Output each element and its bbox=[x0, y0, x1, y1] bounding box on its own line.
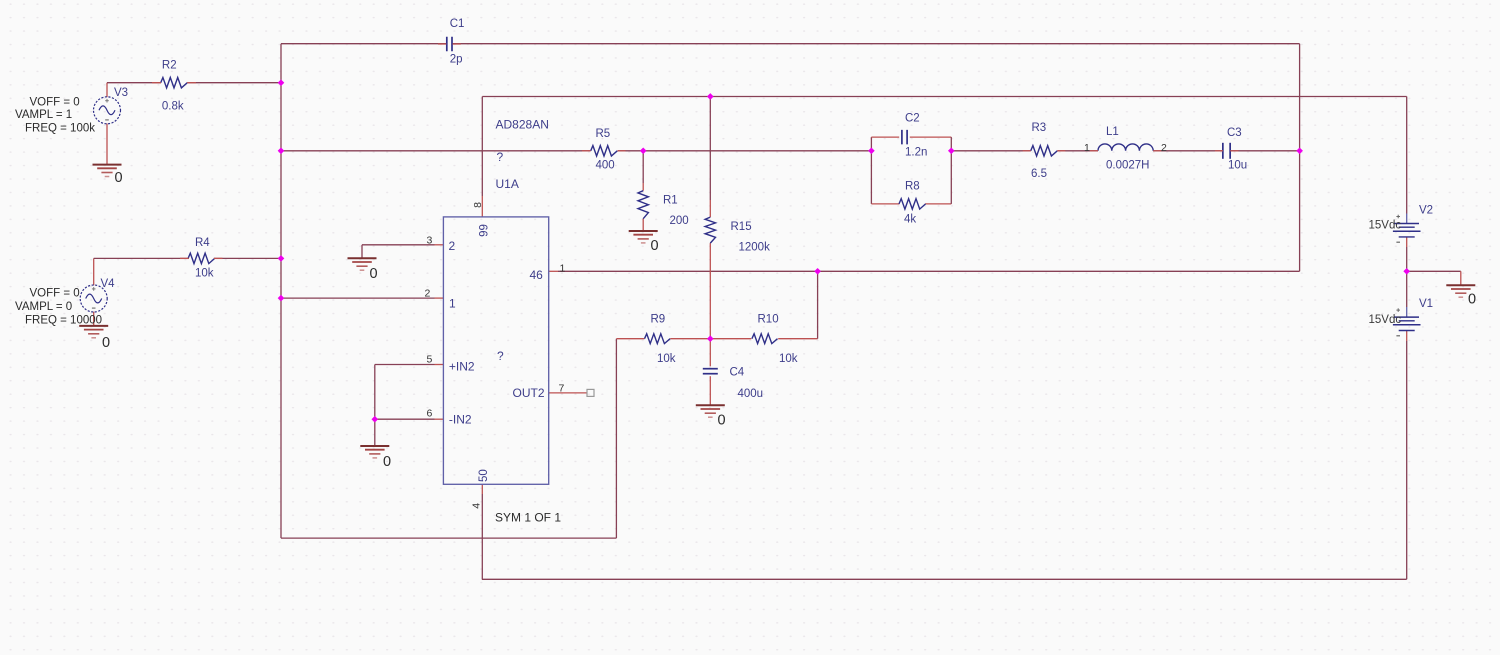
svg-text:10k: 10k bbox=[779, 353, 798, 365]
wire mid rail segment E bbox=[1153, 150, 1223, 152]
svg-text:0: 0 bbox=[651, 238, 659, 254]
ground V4 bbox=[79, 326, 110, 351]
wire mid rail segment B bbox=[618, 150, 872, 152]
svg-text:FREQ = 10000: FREQ = 10000 bbox=[25, 315, 102, 327]
wire V3 to ground bbox=[106, 124, 108, 165]
svg-text:FREQ = 100k: FREQ = 100k bbox=[25, 123, 95, 135]
svg-text:V1: V1 bbox=[1419, 298, 1433, 310]
wire R9 right to node bbox=[670, 338, 710, 340]
op-amp U1A box bbox=[443, 118, 548, 485]
svg-text:R10: R10 bbox=[758, 314, 779, 326]
svg-text:1200k: 1200k bbox=[739, 241, 771, 253]
svg-text:1: 1 bbox=[449, 297, 456, 311]
junction trunk-pin2 bbox=[278, 295, 285, 302]
lead C1 right bbox=[453, 43, 461, 45]
lead C1 left bbox=[438, 43, 446, 45]
ground R1 bbox=[629, 231, 659, 254]
svg-text:?: ? bbox=[497, 349, 504, 363]
wire +V rail bbox=[482, 96, 1406, 98]
svg-text:0.8k: 0.8k bbox=[162, 101, 184, 113]
junction trunk-R4 bbox=[278, 255, 285, 262]
label SYM 1 OF 1 bbox=[495, 511, 561, 525]
wire node to R10 bbox=[710, 338, 751, 340]
junction C2 left bbox=[868, 147, 875, 154]
svg-text:2p: 2p bbox=[450, 54, 463, 66]
svg-text:46: 46 bbox=[530, 268, 544, 282]
wire left trunk vertical bbox=[280, 44, 282, 538]
junction pins5-6 bbox=[371, 416, 378, 423]
svg-text:V3: V3 bbox=[114, 87, 128, 99]
dc source V1 bbox=[1369, 298, 1434, 336]
svg-text:0: 0 bbox=[718, 413, 726, 429]
resistor R4 bbox=[188, 237, 215, 280]
lead R2 left bbox=[152, 82, 161, 84]
resistor R8 branch bbox=[871, 151, 951, 226]
svg-text:0: 0 bbox=[115, 170, 123, 186]
junction C2 right bbox=[948, 147, 955, 154]
svg-text:3: 3 bbox=[427, 235, 433, 247]
svg-text:0: 0 bbox=[383, 454, 391, 470]
wire V1 to bottom rail bbox=[1406, 331, 1408, 580]
lead C3 right bbox=[1230, 150, 1238, 152]
svg-text:1: 1 bbox=[560, 263, 566, 275]
svg-text:0: 0 bbox=[370, 266, 378, 282]
lead R5 right bbox=[618, 150, 626, 152]
wire trunk to pin2 bbox=[281, 297, 443, 299]
svg-text:V4: V4 bbox=[101, 278, 116, 290]
junction trunk-rail bbox=[278, 147, 285, 154]
ground pins5-6 bbox=[360, 446, 391, 470]
resistor R3 bbox=[1031, 122, 1058, 180]
wire R2 to trunk bbox=[187, 82, 281, 84]
svg-text:400u: 400u bbox=[738, 388, 764, 400]
lead R4 right bbox=[214, 257, 223, 259]
svg-text:R9: R9 bbox=[651, 314, 666, 326]
wire OUT2 stub bbox=[549, 392, 587, 394]
dc source V2 bbox=[1369, 205, 1434, 243]
ground supply bbox=[1446, 285, 1476, 307]
capacitor C1 bbox=[447, 18, 465, 66]
resistor R2 bbox=[161, 60, 188, 113]
resistor R5 bbox=[591, 128, 618, 172]
wire V4 to ground bbox=[93, 312, 95, 326]
svg-text:V2: V2 bbox=[1419, 205, 1433, 217]
lead C3 left bbox=[1215, 150, 1223, 152]
svg-text:R2: R2 bbox=[162, 60, 177, 72]
junction output-R10 bbox=[814, 268, 821, 275]
lead R3 left bbox=[1023, 150, 1031, 152]
svg-text:4k: 4k bbox=[904, 214, 916, 226]
svg-text:2: 2 bbox=[425, 288, 431, 300]
wire R1 to ground bbox=[642, 219, 644, 231]
svg-text:4: 4 bbox=[470, 503, 482, 509]
svg-text:0: 0 bbox=[102, 335, 110, 351]
wire C4 to ground bbox=[709, 376, 711, 405]
svg-text:?: ? bbox=[497, 150, 504, 164]
capacitor C2 branch bbox=[871, 113, 951, 159]
svg-text:1.2n: 1.2n bbox=[905, 147, 927, 159]
wire pin6 to node bbox=[375, 418, 444, 420]
wire output rail bbox=[549, 270, 1300, 272]
wire feedback vertical bbox=[615, 339, 617, 538]
svg-text:5: 5 bbox=[427, 354, 433, 366]
op-amp pin numbers outside bbox=[425, 202, 566, 509]
ground C4 bbox=[696, 405, 726, 428]
svg-text:L1: L1 bbox=[1106, 126, 1119, 138]
svg-text:10u: 10u bbox=[1228, 160, 1247, 172]
svg-text:15Vdc: 15Vdc bbox=[1369, 314, 1402, 326]
lead R2 right bbox=[187, 82, 196, 84]
svg-text:1: 1 bbox=[1084, 142, 1090, 154]
svg-text:0.0027H: 0.0027H bbox=[1106, 160, 1149, 172]
wire right vertical to output bbox=[1299, 44, 1301, 272]
voltage source V4 bbox=[15, 278, 115, 327]
wire mid node to V1 bbox=[1406, 271, 1408, 317]
wire +V down to V2 bbox=[1406, 97, 1408, 224]
wire node to ground bbox=[374, 419, 376, 446]
wire ground branch right bbox=[1407, 271, 1461, 285]
svg-text:C4: C4 bbox=[730, 367, 745, 379]
ground V3 bbox=[93, 165, 123, 186]
unconnected pin 7 square bbox=[587, 389, 594, 396]
svg-text:0: 0 bbox=[1468, 292, 1476, 308]
resistor R1 bbox=[638, 191, 689, 227]
svg-text:+IN2: +IN2 bbox=[449, 360, 475, 374]
svg-text:AD828AN: AD828AN bbox=[496, 118, 549, 132]
svg-text:SYM 1 OF 1: SYM 1 OF 1 bbox=[495, 511, 561, 525]
wire mid rail segment D bbox=[1057, 150, 1098, 152]
svg-text:6.5: 6.5 bbox=[1031, 168, 1047, 180]
svg-text:VOFF = 0: VOFF = 0 bbox=[30, 288, 80, 300]
junction output-right bbox=[1296, 147, 1303, 154]
wire C1 net top rail bbox=[281, 43, 1300, 45]
svg-text:50: 50 bbox=[478, 469, 490, 482]
resistor R15 bbox=[705, 217, 770, 253]
capacitor C4 bbox=[703, 367, 763, 401]
wire R15 to node bbox=[709, 243, 711, 339]
svg-text:R3: R3 bbox=[1032, 122, 1047, 134]
wire bottom supply rail bbox=[482, 578, 1407, 580]
svg-text:99: 99 bbox=[479, 224, 491, 237]
resistor R9 bbox=[645, 314, 676, 366]
wire pin3 to ground bbox=[362, 245, 443, 258]
svg-text:2: 2 bbox=[1161, 142, 1167, 154]
svg-text:C2: C2 bbox=[905, 113, 920, 125]
inductor L1 bbox=[1084, 126, 1167, 172]
wire pin5 to node bbox=[375, 365, 444, 420]
svg-text:R4: R4 bbox=[195, 237, 210, 249]
svg-text:6: 6 bbox=[427, 408, 433, 420]
wire V2 to mid node bbox=[1406, 237, 1408, 271]
wire R10 up to output bbox=[817, 271, 819, 338]
lead R3 right bbox=[1057, 150, 1065, 152]
wire pin4 down bbox=[481, 484, 483, 579]
svg-text:R5: R5 bbox=[596, 128, 611, 140]
svg-text:10k: 10k bbox=[195, 268, 214, 280]
wire feedback bottom rail bbox=[281, 537, 616, 539]
wire pin8 supply bbox=[481, 97, 483, 217]
svg-text:2: 2 bbox=[449, 239, 456, 253]
svg-text:10k: 10k bbox=[657, 353, 676, 365]
wire R5 to R1 bbox=[642, 151, 644, 191]
svg-text:U1A: U1A bbox=[496, 177, 519, 191]
lead L1 left bbox=[1090, 150, 1098, 152]
voltage source V3 bbox=[15, 87, 128, 135]
wire mid rail segment F bbox=[1230, 150, 1299, 152]
junction +V-R15 bbox=[707, 93, 714, 100]
lead R5 left bbox=[582, 150, 591, 152]
capacitor C3 bbox=[1223, 127, 1247, 172]
wire +V to R15 bbox=[709, 97, 711, 218]
svg-text:VOFF = 0: VOFF = 0 bbox=[30, 97, 80, 109]
junction supply mid bbox=[1403, 268, 1410, 275]
wire V4 to R4 bbox=[94, 258, 189, 285]
svg-text:C3: C3 bbox=[1227, 127, 1242, 139]
wire mid rail segment C bbox=[951, 150, 1030, 152]
svg-text:VAMPL = 1: VAMPL = 1 bbox=[15, 109, 72, 121]
svg-text:8: 8 bbox=[472, 202, 484, 208]
wire node to C4 bbox=[709, 339, 711, 367]
svg-text:200: 200 bbox=[670, 215, 689, 227]
svg-text:OUT2: OUT2 bbox=[513, 386, 545, 400]
svg-text:7: 7 bbox=[559, 383, 565, 395]
svg-text:15Vdc: 15Vdc bbox=[1369, 220, 1402, 232]
svg-text:-IN2: -IN2 bbox=[449, 413, 472, 427]
junction trunk-R2 bbox=[278, 79, 285, 86]
ground pin3 bbox=[348, 258, 378, 282]
wire V3 to R2 bbox=[107, 83, 161, 97]
svg-text:R1: R1 bbox=[663, 195, 678, 207]
svg-text:R8: R8 bbox=[905, 181, 920, 193]
svg-text:R15: R15 bbox=[731, 221, 752, 233]
lead R4 left bbox=[180, 257, 189, 259]
resistor R10 bbox=[752, 314, 798, 366]
svg-text:400: 400 bbox=[596, 160, 615, 172]
op-amp pin labels inside bbox=[449, 224, 545, 482]
svg-text:VAMPL = 0: VAMPL = 0 bbox=[15, 301, 72, 313]
junction R5-R1 bbox=[640, 147, 647, 154]
wire R10 right bbox=[778, 338, 817, 340]
wire mid rail segment A bbox=[281, 150, 591, 152]
wire R9 left bbox=[616, 338, 644, 340]
lead L1 right bbox=[1153, 150, 1161, 152]
wire R4 to trunk bbox=[214, 257, 281, 259]
svg-text:C1: C1 bbox=[450, 18, 465, 30]
junction R9-R10-C4 bbox=[707, 335, 714, 342]
